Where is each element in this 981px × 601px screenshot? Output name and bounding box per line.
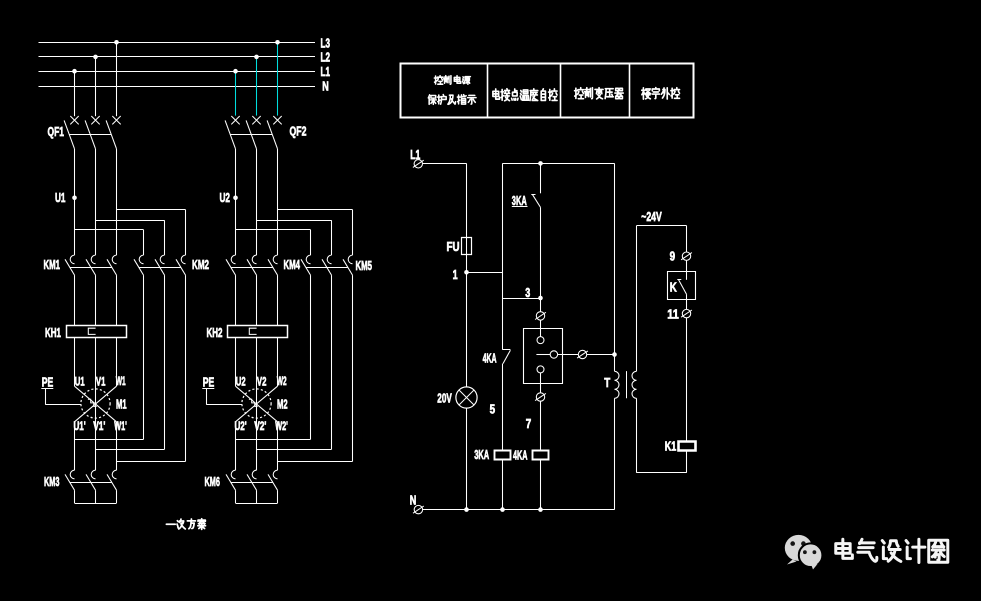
svg-text:M1: M1 bbox=[116, 397, 127, 412]
svg-text:20V: 20V bbox=[437, 391, 452, 406]
svg-text:U1: U1 bbox=[55, 190, 66, 205]
svg-text:N: N bbox=[410, 492, 417, 507]
svg-text:U2: U2 bbox=[220, 190, 231, 205]
svg-text:4KA: 4KA bbox=[483, 350, 497, 365]
svg-text:9: 9 bbox=[670, 249, 676, 264]
svg-text:KM1: KM1 bbox=[44, 257, 61, 272]
svg-text:5: 5 bbox=[490, 401, 496, 416]
svg-text:KM3: KM3 bbox=[44, 474, 60, 489]
svg-text:U1': U1' bbox=[74, 419, 86, 433]
svg-text:V1': V1' bbox=[93, 419, 105, 433]
svg-text:KH2: KH2 bbox=[207, 325, 223, 340]
svg-text:W1: W1 bbox=[116, 374, 126, 388]
svg-text:K1: K1 bbox=[665, 438, 677, 453]
svg-text:KM6: KM6 bbox=[205, 474, 221, 489]
svg-text:3KA: 3KA bbox=[512, 193, 527, 208]
svg-text:L1: L1 bbox=[321, 64, 331, 79]
svg-text:W2': W2' bbox=[275, 419, 288, 433]
svg-text:PE: PE bbox=[203, 374, 215, 389]
svg-text:PE: PE bbox=[42, 374, 54, 389]
svg-text:L2: L2 bbox=[321, 50, 331, 65]
svg-text:QF1: QF1 bbox=[48, 124, 65, 139]
svg-text:FU: FU bbox=[447, 239, 460, 254]
svg-text:K: K bbox=[670, 279, 677, 294]
svg-text:KM4: KM4 bbox=[284, 257, 301, 272]
svg-text:KM2: KM2 bbox=[192, 257, 209, 272]
svg-text:W1': W1' bbox=[114, 419, 127, 433]
svg-text:3: 3 bbox=[525, 285, 530, 300]
svg-text:7: 7 bbox=[526, 416, 532, 431]
svg-text:11: 11 bbox=[667, 307, 679, 322]
svg-text:U2': U2' bbox=[235, 419, 247, 433]
svg-text:U2: U2 bbox=[236, 375, 246, 389]
svg-text:L1: L1 bbox=[410, 147, 420, 162]
svg-text:4KA: 4KA bbox=[513, 447, 528, 462]
svg-text:1: 1 bbox=[453, 267, 458, 282]
svg-text:N: N bbox=[322, 78, 329, 93]
svg-text:V2': V2' bbox=[254, 419, 266, 433]
svg-text:U1: U1 bbox=[75, 375, 85, 389]
svg-text:~24V: ~24V bbox=[641, 209, 662, 224]
svg-text:V1: V1 bbox=[96, 375, 106, 389]
svg-text:3KA: 3KA bbox=[474, 447, 489, 462]
svg-text:L3: L3 bbox=[321, 35, 331, 50]
svg-text:W2: W2 bbox=[277, 374, 287, 388]
svg-text:V2: V2 bbox=[257, 375, 267, 389]
svg-text:T: T bbox=[604, 375, 610, 390]
svg-text:KM5: KM5 bbox=[356, 258, 373, 273]
svg-text:KH1: KH1 bbox=[45, 325, 61, 340]
svg-text:QF2: QF2 bbox=[290, 124, 307, 139]
svg-text:M2: M2 bbox=[277, 397, 288, 412]
